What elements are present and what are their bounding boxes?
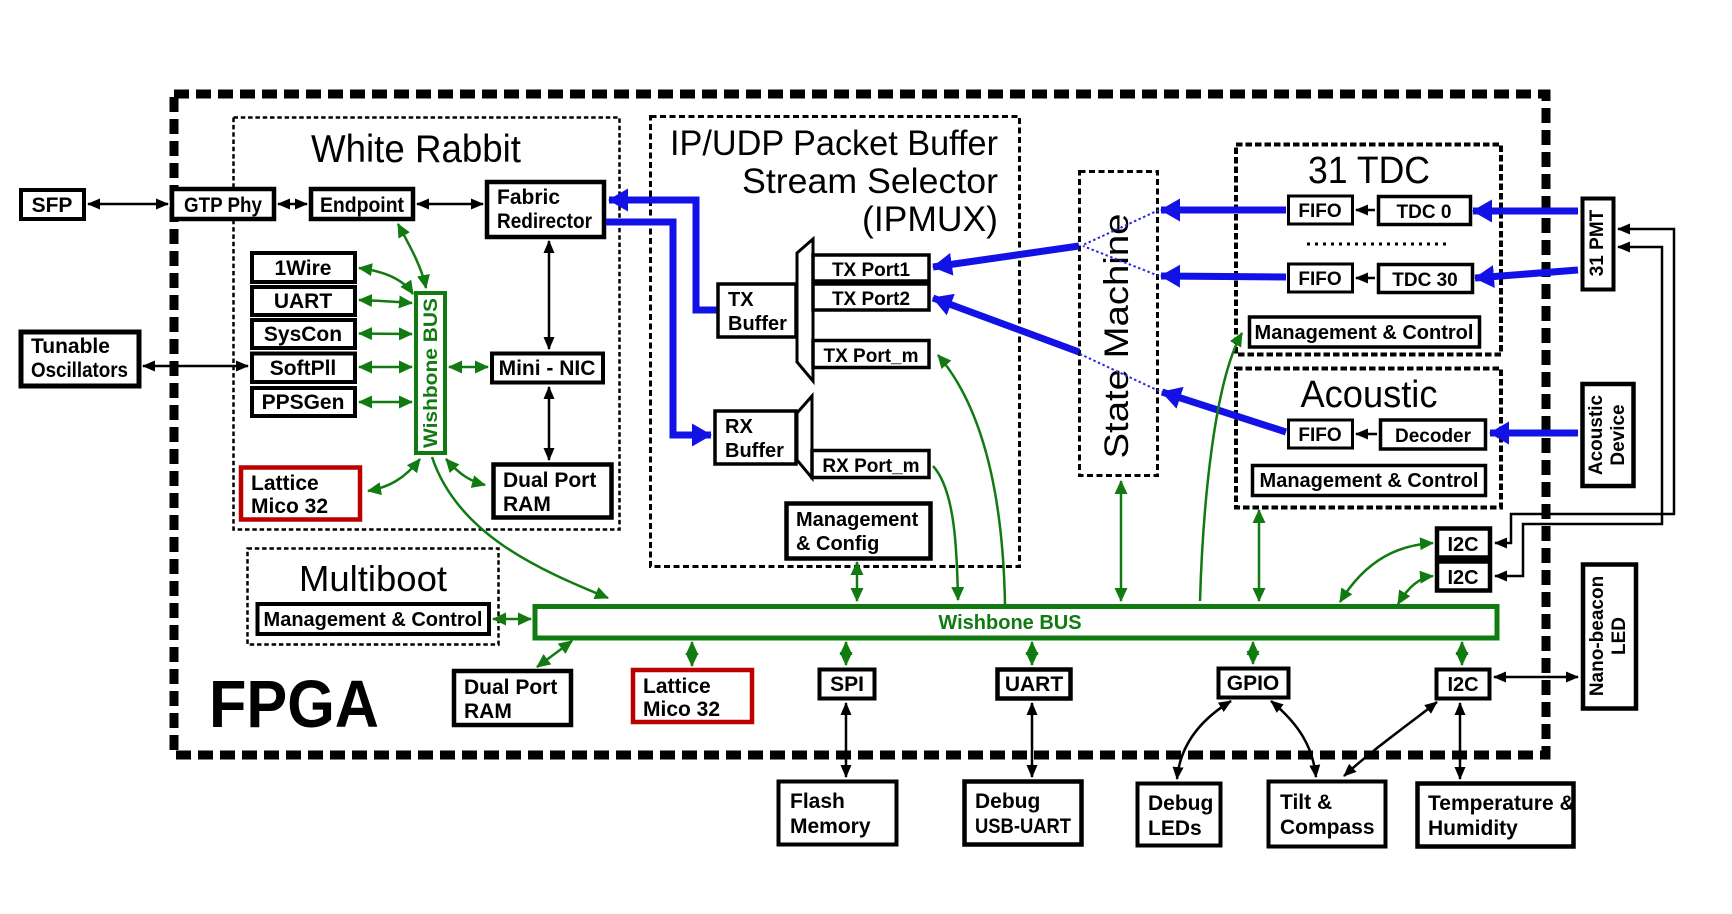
- svg-text:Lattice: Lattice: [643, 675, 711, 698]
- TDC 0 box: [1379, 197, 1471, 225]
- svg-text:Debug: Debug: [1148, 792, 1213, 815]
- green wire bus - UART: [1031, 642, 1034, 665]
- 1Wire box: [252, 253, 355, 282]
- green wire bus - I2C b: [1398, 576, 1433, 604]
- svg-text:SoftPll: SoftPll: [270, 357, 337, 380]
- svg-text:TDC 30: TDC 30: [1392, 270, 1457, 291]
- svg-text:RX: RX: [725, 416, 753, 438]
- blue wire State Machine - TX Port2: [933, 298, 1079, 352]
- wire I2C a - 31 PMT: [1495, 229, 1674, 543]
- Debug LEDs box: [1138, 784, 1221, 846]
- blue wire FIFO - State Machine (TDC0): [1161, 207, 1286, 214]
- green wire SoftPll - wishbone vertical: [359, 366, 412, 369]
- svg-text:FIFO: FIFO: [1298, 425, 1341, 446]
- green wire bus - GPIO: [1252, 642, 1255, 664]
- 31 TDC dashed box: [1236, 145, 1501, 355]
- wire TDC0 - FIFO: [1356, 209, 1375, 212]
- wire I2C c - Temperature & Humidity: [1459, 703, 1462, 779]
- SysCon box: [252, 320, 355, 348]
- wire Mini NIC - Dual Port RAM: [548, 387, 551, 460]
- Nano-beacon LED box: [1583, 565, 1636, 709]
- wire UART - Debug USB-UART: [1031, 703, 1034, 777]
- FIFO box (Acoustic): [1289, 420, 1353, 448]
- svg-text:USB-UART: USB-UART: [975, 815, 1071, 838]
- svg-text:Wishbone BUS: Wishbone BUS: [938, 612, 1081, 634]
- svg-text:Fabric: Fabric: [497, 186, 560, 209]
- svg-text:Device: Device: [1608, 404, 1629, 465]
- svg-text:TDC 0: TDC 0: [1397, 202, 1452, 223]
- Multiboot dashed box: [248, 549, 499, 645]
- blue dotted state machine internal C: [1080, 354, 1159, 391]
- Multiboot Management & Control box: [258, 604, 490, 634]
- blue wire 31 PMT - TDC 0: [1473, 208, 1578, 215]
- svg-text:Dual Port: Dual Port: [503, 469, 596, 492]
- Flash Memory box: [779, 782, 897, 845]
- wire TDC30 - FIFO: [1356, 277, 1375, 280]
- I2C box c: [1437, 670, 1490, 699]
- green wire bus - Management & Config: [856, 562, 859, 601]
- I2C box b: [1437, 562, 1490, 591]
- svg-text:Humidity: Humidity: [1428, 817, 1518, 840]
- svg-text:RX Port_m: RX Port_m: [822, 456, 919, 477]
- TDC 30 box: [1379, 265, 1473, 293]
- green wire wishbone vertical - Lattice Mico 32: [368, 459, 420, 491]
- svg-text:Tunable: Tunable: [31, 335, 110, 358]
- PPSGen box: [252, 388, 355, 416]
- Temperature & Humidity box: [1418, 784, 1575, 847]
- green wire bus - Acoustic: [1258, 510, 1261, 601]
- svg-text:Tilt &: Tilt &: [1280, 791, 1332, 814]
- svg-text:GTP Phy: GTP Phy: [184, 194, 262, 217]
- svg-text:Buffer: Buffer: [725, 440, 784, 462]
- IPMUX dashed box: [651, 117, 1020, 567]
- green wire bus - TDC Management & Control: [1200, 333, 1242, 601]
- svg-text:UART: UART: [274, 290, 332, 313]
- green wire bus - I2C c: [1461, 642, 1464, 665]
- svg-text:Memory: Memory: [790, 815, 871, 838]
- TX Port1 box: [813, 255, 929, 281]
- wire GPIO - Debug LEDs: [1177, 701, 1231, 779]
- svg-text:State Machine: State Machine: [1098, 214, 1136, 459]
- svg-text:LED: LED: [1609, 617, 1630, 655]
- wire I2C c - Nano-beacon LED: [1494, 676, 1578, 679]
- svg-text:Acoustic: Acoustic: [1586, 394, 1607, 475]
- svg-text:Endpoint: Endpoint: [320, 194, 404, 217]
- green wire Multiboot - wishbone bus: [493, 618, 531, 621]
- blue wire 31 PMT - TDC 30: [1475, 270, 1578, 278]
- svg-text:White Rabbit: White Rabbit: [311, 128, 521, 171]
- svg-text:TX Port_m: TX Port_m: [823, 346, 918, 367]
- svg-text:SysCon: SysCon: [264, 323, 342, 346]
- SoftPll box: [252, 354, 355, 383]
- SPI box: [820, 670, 875, 699]
- svg-text:Management: Management: [796, 509, 919, 531]
- svg-text:Mini - NIC: Mini - NIC: [499, 357, 596, 380]
- svg-text:Stream Selector: Stream Selector: [742, 162, 998, 201]
- svg-text:GPIO: GPIO: [1227, 672, 1280, 695]
- blue wire Fabric Redirector - RX Buffer: [606, 222, 711, 435]
- green wire wishbone vertical - Mini NIC: [449, 366, 488, 369]
- blue wire Acoustic Device - Decoder: [1490, 430, 1578, 437]
- green wire UART - wishbone vertical: [359, 300, 412, 303]
- svg-text:Flash: Flash: [790, 790, 845, 813]
- TX Port2 box: [813, 284, 929, 310]
- svg-text:Dual Port: Dual Port: [464, 676, 557, 699]
- TX Buffer box: [718, 284, 796, 337]
- wire I2C c - Tilt & Compass: [1344, 702, 1437, 776]
- svg-text:IP/UDP Packet Buffer: IP/UDP Packet Buffer: [670, 124, 998, 163]
- Acoustic Management & Control box: [1253, 466, 1486, 496]
- green wire bus - Dual Port RAM bottom: [537, 641, 572, 667]
- blue wire TX Buffer - Fabric Redirector: [609, 200, 718, 310]
- svg-text:Nano-beacon: Nano-beacon: [1587, 576, 1608, 696]
- UART box: [252, 287, 355, 315]
- svg-text:Debug: Debug: [975, 790, 1040, 813]
- green wire RX Port_m - bus: [933, 466, 958, 600]
- svg-text:RAM: RAM: [503, 493, 551, 516]
- green wire bus - SPI: [845, 642, 848, 665]
- White Rabbit dashed box: [234, 118, 620, 530]
- svg-text:SPI: SPI: [830, 673, 864, 696]
- svg-text:Compass: Compass: [1280, 816, 1375, 839]
- wire SFP - GTP Phy: [88, 203, 168, 206]
- State Machine dashed box: [1080, 172, 1158, 476]
- blue wire FIFO - State Machine (TDC30): [1161, 276, 1286, 277]
- dotted separator: [1307, 243, 1448, 246]
- blue wire FIFO - State Machine (Acoustic): [1162, 392, 1286, 432]
- svg-text:Wishbone BUS: Wishbone BUS: [421, 298, 442, 448]
- svg-text:FPGA: FPGA: [209, 667, 379, 742]
- svg-text:Decoder: Decoder: [1395, 426, 1472, 447]
- wire Fabric Redirector - Mini NIC: [548, 241, 551, 349]
- svg-text:Lattice: Lattice: [251, 472, 319, 495]
- svg-text:PPSGen: PPSGen: [262, 391, 345, 414]
- wire GPIO - Tilt & Compass: [1271, 701, 1316, 777]
- RX mux trapezoid: [797, 396, 812, 478]
- svg-text:Redirector: Redirector: [497, 210, 592, 233]
- svg-text:RAM: RAM: [464, 700, 512, 723]
- svg-text:Mico 32: Mico 32: [643, 698, 720, 721]
- GTP Phy box: [172, 189, 274, 219]
- Dual Port RAM box (bottom): [454, 671, 571, 725]
- svg-text:Mico 32: Mico 32: [251, 495, 328, 518]
- Acoustic Device box: [1583, 384, 1634, 486]
- blue wire State Machine - TX Port1: [933, 246, 1079, 267]
- svg-text:Acoustic: Acoustic: [1301, 374, 1438, 416]
- svg-text:I2C: I2C: [1447, 567, 1478, 589]
- wire Decoder - FIFO: [1356, 433, 1377, 436]
- svg-text:FIFO: FIFO: [1298, 201, 1341, 222]
- Wishbone BUS vertical box: [416, 293, 445, 453]
- svg-text:& Config: & Config: [796, 533, 879, 555]
- wire GTP Phy - Endpoint: [278, 203, 307, 206]
- TDC Management & Control box: [1250, 317, 1480, 347]
- svg-text:Buffer: Buffer: [728, 313, 787, 335]
- svg-text:Management & Control: Management & Control: [264, 609, 483, 631]
- green wire PPSGen - wishbone vertical: [359, 401, 412, 404]
- svg-text:Temperature &: Temperature &: [1428, 792, 1575, 815]
- svg-text:I2C: I2C: [1447, 674, 1478, 696]
- Wishbone BUS horizontal: [535, 607, 1497, 639]
- FIFO box (TDC30): [1289, 264, 1353, 292]
- green wire bus - I2C a: [1340, 543, 1433, 602]
- green wire SysCon - wishbone vertical: [359, 332, 412, 335]
- green wire 1Wire - wishbone vertical: [359, 268, 413, 294]
- FIFO box (TDC0): [1289, 196, 1353, 224]
- svg-text:TX: TX: [728, 289, 754, 311]
- Debug USB-UART box: [965, 782, 1082, 845]
- wire Endpoint - Fabric Redirector: [417, 203, 483, 206]
- Lattice Mico 32 box (bottom, red): [633, 670, 752, 722]
- svg-text:Oscillators: Oscillators: [31, 359, 128, 382]
- blue dotted state machine internal A: [1083, 210, 1159, 245]
- svg-text:Management & Control: Management & Control: [1260, 470, 1479, 492]
- Lattice Mico 32 box (White Rabbit, red): [241, 468, 360, 520]
- Acoustic dashed box: [1236, 369, 1501, 508]
- svg-text:Management & Control: Management & Control: [1255, 322, 1474, 344]
- Endpoint box: [311, 189, 413, 219]
- Fabric Redirector box: [487, 182, 604, 237]
- svg-text:LEDs: LEDs: [1148, 817, 1202, 840]
- wire I2C b - 31 PMT: [1495, 247, 1662, 576]
- GPIO box: [1219, 669, 1289, 698]
- svg-text:TX Port2: TX Port2: [832, 289, 910, 310]
- green wire wishbone vertical - wishbone bus: [432, 457, 608, 598]
- svg-text:FIFO: FIFO: [1298, 269, 1341, 290]
- FPGA outer dashed border: [174, 94, 1546, 755]
- green wire wishbone vertical - Dual Port RAM: [446, 459, 485, 485]
- I2C box a: [1437, 529, 1490, 558]
- svg-text:Multiboot: Multiboot: [299, 558, 447, 599]
- svg-text:UART: UART: [1005, 673, 1063, 696]
- svg-text:SFP: SFP: [32, 194, 73, 217]
- Tunable Oscillators box: [21, 332, 139, 386]
- UART box (bottom): [998, 670, 1071, 699]
- svg-text:I2C: I2C: [1447, 534, 1478, 556]
- RX Buffer box: [715, 411, 796, 464]
- 31 PMT box: [1583, 199, 1614, 290]
- Dual Port RAM box (White Rabbit): [494, 465, 612, 518]
- green wire bus - State Machine: [1120, 481, 1123, 601]
- wire SPI - Flash Memory: [845, 703, 848, 777]
- RX Port_m box: [812, 451, 929, 478]
- Management & Config box: [787, 504, 931, 559]
- green wire Endpoint - wishbone vertical: [398, 224, 426, 288]
- Decoder box: [1381, 420, 1486, 449]
- wire Tunable Oscillators - SoftPll: [143, 365, 248, 368]
- green wire bus - TX Port_m: [938, 355, 1005, 604]
- svg-text:31 TDC: 31 TDC: [1308, 150, 1430, 192]
- svg-text:31 PMT: 31 PMT: [1587, 209, 1608, 276]
- TX mux trapezoid: [797, 239, 813, 381]
- svg-text:1Wire: 1Wire: [274, 257, 331, 280]
- blue dotted state machine internal B: [1083, 246, 1159, 276]
- Tilt & Compass box: [1269, 782, 1386, 847]
- svg-text:TX Port1: TX Port1: [832, 260, 911, 281]
- svg-text:(IPMUX): (IPMUX): [862, 200, 998, 239]
- Mini - NIC box: [492, 354, 603, 383]
- TX Port_m box: [813, 341, 929, 368]
- SFP box: [21, 190, 84, 219]
- green wire bus - Lattice Mico 32 bottom: [691, 642, 694, 666]
